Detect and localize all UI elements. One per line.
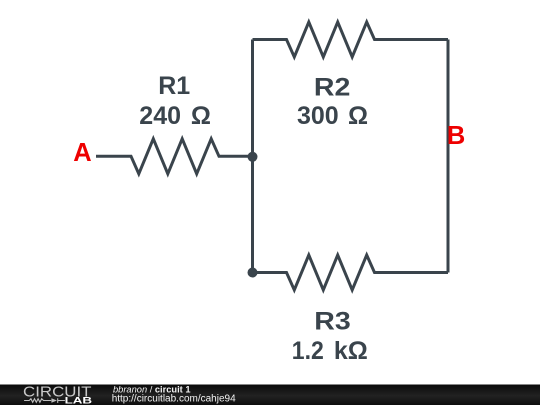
svg-text:B: B [447, 122, 465, 150]
svg-text:Ω: Ω [348, 102, 368, 130]
svg-text:240: 240 [139, 102, 181, 130]
svg-text:A: A [73, 139, 91, 167]
svg-text:LAB: LAB [65, 395, 93, 405]
svg-text:R2: R2 [314, 73, 351, 101]
svg-text:R3: R3 [314, 307, 351, 335]
svg-text:300: 300 [297, 102, 339, 130]
svg-text:Ω: Ω [191, 102, 211, 130]
svg-text:kΩ: kΩ [334, 337, 368, 365]
svg-text:R1: R1 [158, 72, 190, 100]
svg-text:1.2: 1.2 [292, 337, 324, 365]
svg-text:http://circuitlab.com/cahje94: http://circuitlab.com/cahje94 [112, 394, 236, 405]
